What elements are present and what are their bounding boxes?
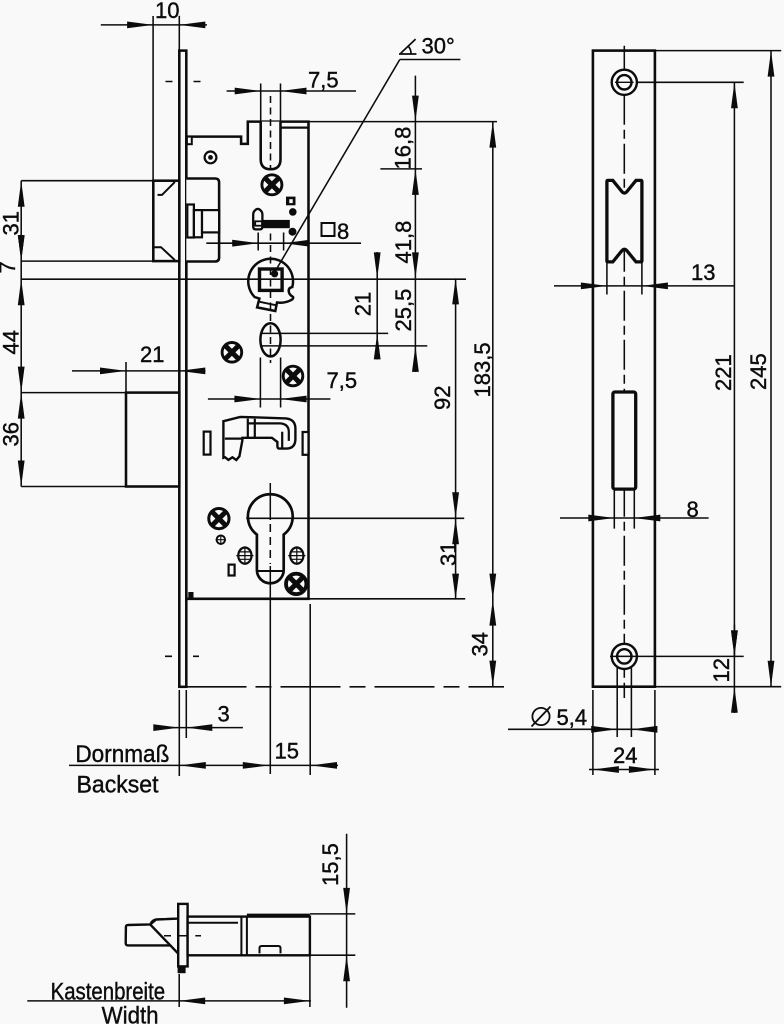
small circle with cross — [217, 536, 225, 544]
follower dot — [271, 270, 278, 277]
follower outline with step notch and bottom tab — [248, 259, 293, 311]
21 left — [100, 368, 126, 375]
dim 12 line — [733, 625, 735, 713]
svg-text:245: 245 — [746, 353, 771, 390]
ref latch bottom — [21, 260, 179, 262]
faceplate — [179, 51, 186, 687]
latch chamfer mark top — [158, 182, 175, 195]
left column: 36 — [18, 393, 25, 419]
case bottom-left filled square — [188, 592, 193, 599]
ext faceplate left bottom (3 / backset) — [178, 690, 180, 776]
15 — [311, 762, 337, 769]
latch chamfer mark bottom — [155, 247, 175, 260]
16,8 outside arrows — [412, 96, 419, 122]
dim square8 line — [206, 242, 361, 244]
dim 24 line — [589, 769, 659, 771]
dim 15,5 line — [346, 834, 348, 1008]
right view refs/dims — [508, 51, 781, 775]
ref latch top — [21, 180, 153, 182]
follower square hole — [260, 269, 283, 290]
arrowheads front view — [18, 22, 496, 769]
21 right outside — [374, 252, 381, 278]
ref case bottom right for 183,5/31 — [309, 598, 466, 600]
case outline bottom view — [188, 917, 310, 956]
bottom view dims — [27, 834, 355, 1008]
faceplate centerline dashes top — [166, 81, 201, 83]
svg-text:5,4: 5,4 — [557, 705, 588, 730]
svg-text:24: 24 — [613, 743, 637, 768]
svg-text:8: 8 — [687, 497, 699, 522]
svg-text:183,5: 183,5 — [470, 342, 495, 397]
hook guide rect right — [303, 432, 309, 455]
small inner rect bottom view — [260, 946, 281, 953]
dim 7,5 top line — [227, 90, 356, 92]
ref 21 right (from oval) — [261, 332, 389, 334]
ref bottom hole center — [610, 655, 744, 657]
svg-text:10: 10 — [155, 0, 179, 23]
dim 25,5 line — [414, 278, 416, 372]
ref deadbolt bottom — [21, 486, 179, 488]
crosshair mark right — [290, 548, 303, 564]
ext faceplate right bottom (3) — [185, 690, 187, 738]
svg-text:12: 12 — [709, 658, 734, 682]
10 — [127, 22, 153, 29]
dim 21 left line — [72, 370, 206, 372]
svg-text:31: 31 — [0, 211, 24, 235]
latch window with V notches — [607, 180, 642, 262]
svg-text:34: 34 — [468, 632, 493, 656]
svg-text:21: 21 — [351, 292, 376, 316]
svg-text:15: 15 — [275, 739, 299, 764]
92 — [452, 278, 459, 304]
hook guide rect left — [204, 432, 211, 455]
kastenbreite ext — [179, 956, 310, 1008]
dim backset/15 line — [69, 764, 338, 766]
dim 10 line — [101, 24, 207, 26]
hook bolt inner lines — [225, 419, 289, 449]
svg-text:36: 36 — [0, 422, 24, 446]
follower horizontal centerline long — [21, 278, 466, 280]
ext latch tip for 10 — [152, 16, 154, 181]
svg-text:41,8: 41,8 — [391, 221, 416, 264]
top latch slot — [261, 122, 281, 170]
ref deadbolt top — [21, 392, 126, 394]
right view arrowheads — [581, 51, 775, 773]
ext deadbolt window for 8 — [614, 490, 634, 529]
dim dia 5,4 line — [508, 728, 657, 730]
refs 15,5 — [310, 914, 355, 955]
cover top thick line — [247, 914, 310, 917]
dim 221 line — [733, 82, 735, 656]
case top inner line — [262, 126, 309, 128]
small dot b — [289, 228, 297, 236]
leader 30deg — [274, 60, 460, 273]
ext slot sides for 7,5 top — [261, 84, 281, 122]
183,5 — [489, 122, 496, 148]
bolt symbol shaft — [262, 220, 289, 228]
34 — [489, 600, 496, 626]
hook bolt outer — [223, 417, 295, 460]
ref tick 16,8 bottom — [380, 168, 422, 170]
euro cylinder — [248, 494, 293, 583]
svg-text:Dornmaß: Dornmaß — [75, 741, 169, 768]
ext hole dia 5,4 — [617, 668, 631, 737]
latch bevel — [150, 919, 179, 955]
plate centerline — [623, 46, 625, 698]
latch head (protruding) — [153, 181, 179, 261]
small square with hole — [286, 197, 296, 206]
dim 13 line — [554, 285, 734, 287]
svg-text:92: 92 — [430, 386, 455, 410]
right view texts — [532, 260, 772, 768]
ext faceplate left top for 10 — [178, 16, 180, 51]
phillips screws — [209, 175, 307, 594]
oval slot — [260, 323, 280, 356]
kastenbreite dim line — [27, 1000, 311, 1002]
left dim column line — [20, 181, 22, 487]
angle symbol — [399, 39, 416, 54]
svg-text:Kastenbreite: Kastenbreite — [51, 979, 166, 1006]
case top-left notch square — [187, 137, 192, 145]
ref faceplate bottom dashed for 34 — [187, 686, 505, 688]
7,5 top — [235, 88, 261, 95]
dim 7,5 lower line — [208, 398, 331, 400]
svg-text:21: 21 — [140, 342, 164, 367]
left column: 44 — [18, 367, 25, 393]
ext latch window for 13 — [607, 263, 642, 295]
deadbolt front block — [126, 393, 179, 487]
ext oval sides for 7,5 lower — [260, 358, 280, 408]
vertical center dashline follower/oval — [270, 234, 272, 364]
ext case right bottom (15) — [309, 604, 311, 775]
faceplate centerline dashes bottom — [165, 655, 199, 657]
cylinder centerline below case (15 dim ext) — [269, 600, 271, 774]
left column: 31 — [18, 181, 25, 207]
deadbolt window — [613, 392, 636, 489]
cylinder vertical centerline — [269, 483, 271, 599]
ref plate bottom right — [655, 686, 781, 688]
plate outline — [593, 51, 655, 687]
backset — [180, 762, 206, 769]
crosshair mark left — [238, 548, 251, 564]
svg-text:221: 221 — [711, 354, 736, 391]
dim 92 line — [455, 278, 457, 518]
svg-text:31: 31 — [436, 542, 461, 566]
latch body behind plate — [186, 179, 219, 262]
dim 8 line — [560, 517, 709, 519]
plate bottom black mark — [178, 966, 186, 974]
case inner top line — [188, 917, 247, 956]
bottom plate — [178, 904, 187, 967]
svg-text:Width: Width — [102, 1003, 159, 1024]
ticks square 8 — [258, 233, 283, 251]
dim 21 right line — [376, 252, 378, 360]
ref case top right for 183,5 — [309, 121, 498, 123]
dim 31 right line — [455, 518, 457, 599]
cylinder horizontal centerline long — [246, 517, 464, 519]
svg-text:13: 13 — [691, 260, 715, 285]
small rect near cylinder — [229, 565, 235, 576]
svg-text:44: 44 — [0, 330, 24, 354]
ext deadbolt tip for 21 left — [125, 362, 127, 393]
dim 16,8/41,8 line — [414, 76, 416, 279]
lock case outline — [186, 122, 308, 599]
centerline dashes bottom view — [164, 935, 201, 937]
41,8 bottom — [412, 252, 419, 278]
svg-text:7: 7 — [0, 261, 20, 273]
ref 25,5 right (from oval) — [261, 345, 428, 347]
dim 245 line — [770, 51, 772, 687]
latch rivet ring — [205, 152, 217, 164]
left column: 7 outside — [18, 235, 25, 261]
small dot a — [289, 208, 297, 216]
vertical center dashline through top slot — [270, 96, 272, 168]
dim 3 line — [154, 727, 243, 729]
bolt symbol head — [253, 209, 262, 230]
latch shaft — [126, 919, 179, 955]
svg-text:8: 8 — [337, 219, 349, 244]
top screw hole — [612, 70, 637, 95]
svg-text:30°: 30° — [422, 34, 455, 59]
svg-text:16,8: 16,8 — [391, 127, 416, 170]
svg-text:15,5: 15,5 — [318, 843, 343, 886]
dim 183,5 / 34 line — [492, 122, 494, 687]
ext plate sides for 24 — [593, 690, 655, 775]
7,5 lower — [234, 396, 260, 403]
latch tail plates — [187, 205, 194, 238]
svg-text:Backset: Backset — [77, 772, 159, 799]
square 8 — [232, 240, 258, 247]
svg-text:3: 3 — [218, 702, 230, 727]
svg-text:7,5: 7,5 — [327, 368, 358, 393]
svg-text:25,5: 25,5 — [391, 289, 416, 332]
bottom screw hole — [612, 644, 637, 669]
ref top hole center — [637, 81, 743, 83]
svg-text:7,5: 7,5 — [308, 68, 339, 93]
25,5 bottom outside — [412, 346, 419, 372]
3 — [153, 724, 179, 731]
31 right — [452, 518, 459, 544]
ref plate top right — [655, 50, 781, 52]
